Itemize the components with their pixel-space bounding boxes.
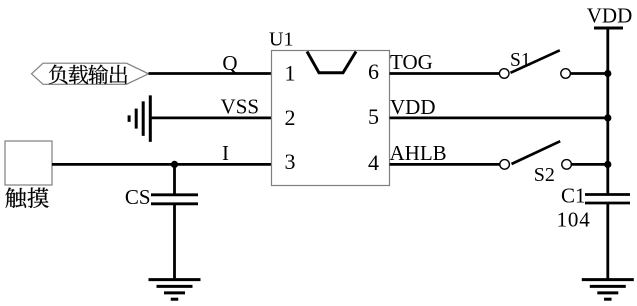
wire: ground to pin 2 (VSS net) — [150, 117, 271, 120]
wire: S1 to rail — [571, 72, 608, 75]
svg-text:S2: S2 — [534, 164, 555, 186]
wire: C1 to ground — [606, 203, 609, 280]
svg-text:S1: S1 — [510, 50, 531, 71]
svg-text:4: 4 — [368, 150, 379, 175]
capacitor CS — [151, 193, 198, 196]
wire: CS to ground — [173, 204, 176, 280]
svg-text:U1: U1 — [269, 29, 293, 51]
svg-text:AHLB: AHLB — [390, 141, 447, 165]
wire: pin 4 to S2 (AHLB net) — [390, 163, 501, 166]
junction: VDD/rail — [604, 114, 611, 121]
svg-text:CS: CS — [125, 185, 151, 209]
junction: AHLB/rail — [604, 161, 611, 168]
svg-text:VDD: VDD — [390, 95, 436, 119]
svg-text:TOG: TOG — [390, 50, 433, 74]
switch S2 — [500, 160, 510, 170]
wire: pin 5 to rail (VDD net) — [390, 117, 608, 120]
svg-text:Q: Q — [222, 51, 237, 75]
svg-text:C1: C1 — [561, 184, 586, 208]
svg-text:I: I — [222, 141, 229, 165]
node: load-output flag 负载输出 — [32, 63, 149, 84]
svg-text:104: 104 — [557, 207, 591, 231]
ground (VSS, sideways) — [149, 95, 152, 142]
ground (bottom right) — [582, 278, 634, 281]
svg-text:5: 5 — [368, 104, 379, 129]
wire: pin 6 to S1 (TOG net) — [390, 72, 501, 75]
svg-text:3: 3 — [285, 149, 296, 174]
wire: flag to pin 1 (Q net) — [149, 72, 272, 75]
svg-text:6: 6 — [368, 59, 379, 84]
wire: touch box to pin 3 (I net) — [52, 163, 272, 166]
U1 notch — [307, 52, 356, 73]
svg-text:VSS: VSS — [221, 95, 260, 119]
touch pad box 触摸 — [5, 141, 52, 185]
svg-text:VDD: VDD — [587, 3, 633, 27]
svg-text:1: 1 — [285, 61, 296, 86]
wire: S2 to rail — [571, 163, 608, 166]
svg-text:2: 2 — [285, 105, 296, 130]
capacitor C1 104 — [585, 193, 630, 196]
wire: VDD rail — [606, 28, 609, 195]
junction: TOG/rail — [604, 70, 611, 77]
junction: I node / CS — [171, 161, 178, 168]
wire: node down to CS — [173, 164, 176, 194]
ground (below CS) — [149, 278, 201, 281]
op IC U1 body — [272, 51, 390, 186]
switch S1 — [499, 69, 509, 79]
